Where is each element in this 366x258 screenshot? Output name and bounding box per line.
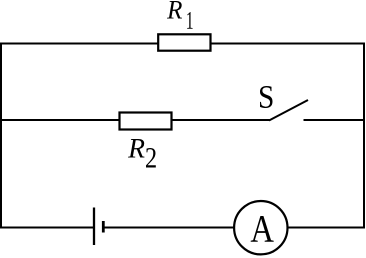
ammeter letter A xyxy=(251,216,274,242)
wire middle branch left segment xyxy=(0,119,270,121)
wire bottom branch left of battery xyxy=(0,227,93,229)
wire top branch xyxy=(0,43,365,45)
label R1 subscript 1 xyxy=(187,12,192,29)
switch S blade xyxy=(269,100,308,121)
wire middle branch right segment xyxy=(304,119,366,121)
ammeter A circle xyxy=(234,201,287,254)
resistor R2 xyxy=(120,113,172,130)
label R2 subscript 2 xyxy=(146,148,156,168)
battery short plate xyxy=(102,221,105,233)
label S xyxy=(260,86,273,108)
resistor R1 xyxy=(158,34,210,50)
battery long plate xyxy=(93,208,95,246)
label R2 letter R xyxy=(128,139,144,158)
wire right vertical xyxy=(363,43,365,229)
label R1 letter R xyxy=(167,1,182,19)
wire bottom branch right of battery xyxy=(105,227,366,229)
wire left vertical xyxy=(0,43,2,229)
